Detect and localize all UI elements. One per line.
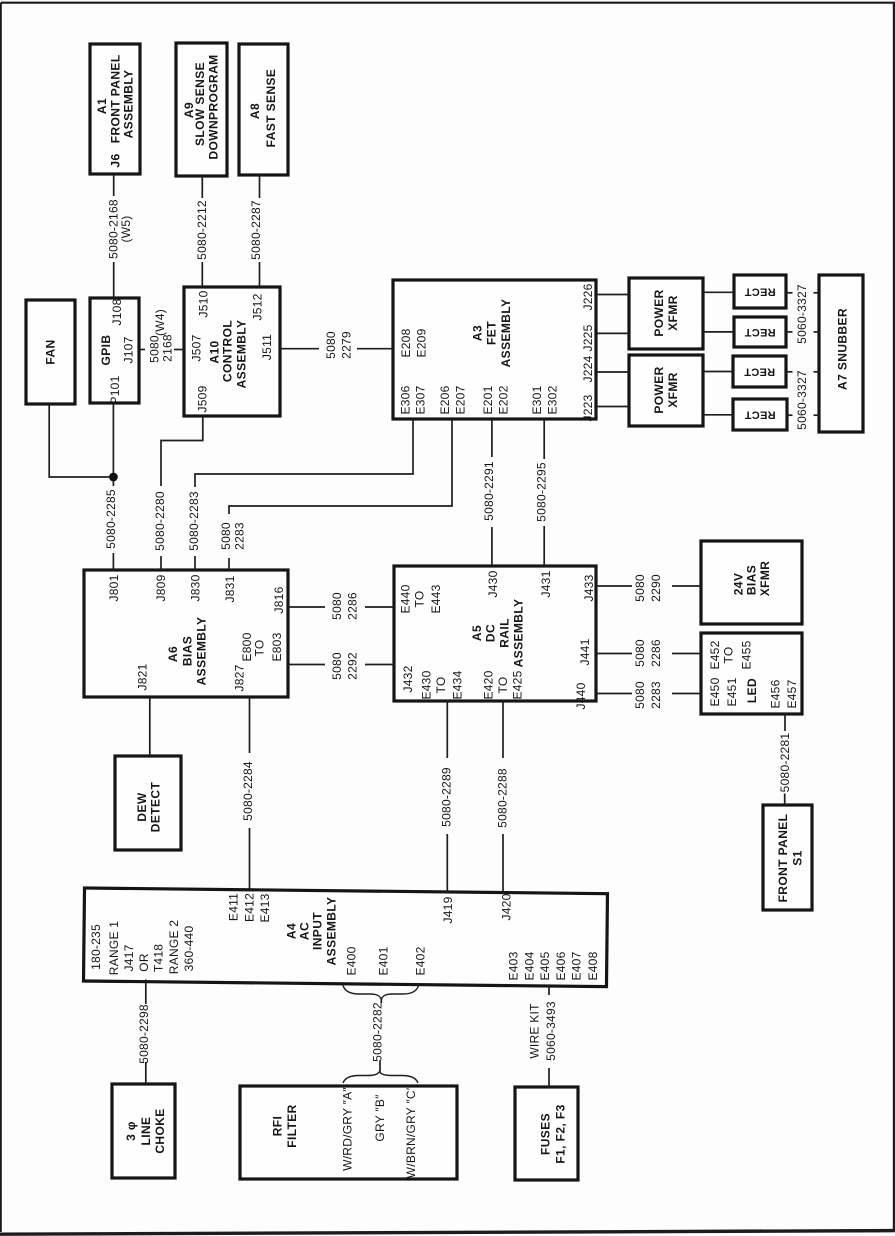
svg-text:J419: J419 bbox=[441, 896, 455, 923]
svg-text:2286: 2286 bbox=[345, 592, 359, 620]
wire GPIB-P101 to A6-J801, cable 5080-2285 bbox=[112, 403, 114, 486]
svg-text:2286: 2286 bbox=[649, 639, 663, 667]
junction dot FAN tap bbox=[109, 473, 118, 482]
svg-text:E451: E451 bbox=[725, 677, 739, 706]
svg-text:J420: J420 bbox=[499, 893, 513, 920]
svg-text:J440: J440 bbox=[574, 682, 588, 709]
svg-text:A1: A1 bbox=[95, 98, 109, 114]
svg-text:TO: TO bbox=[496, 677, 510, 694]
svg-text:J224: J224 bbox=[581, 355, 595, 382]
svg-text:F1, F2, F3: F1, F2, F3 bbox=[553, 1104, 567, 1163]
svg-text:5060-3327: 5060-3327 bbox=[795, 370, 809, 430]
svg-text:OR: OR bbox=[137, 953, 151, 972]
svg-text:SLOW SENSE: SLOW SENSE bbox=[193, 62, 207, 146]
svg-text:RANGE 2: RANGE 2 bbox=[167, 920, 181, 975]
svg-text:J830: J830 bbox=[188, 574, 202, 601]
svg-text:FILTER: FILTER bbox=[285, 1104, 299, 1148]
svg-text:2290: 2290 bbox=[649, 574, 663, 602]
svg-text:ASSEMBLY: ASSEMBLY bbox=[194, 617, 208, 686]
wire A8 to A10-J512, cable 5080-2287 bbox=[259, 175, 261, 198]
svg-text:5080-2281: 5080-2281 bbox=[778, 733, 792, 793]
svg-text:CHOKE: CHOKE bbox=[153, 1108, 167, 1153]
svg-text:J827: J827 bbox=[232, 664, 246, 691]
rectifier CR4 box bbox=[733, 399, 787, 430]
svg-text:E443: E443 bbox=[429, 584, 443, 613]
svg-text:RAIL: RAIL bbox=[497, 618, 511, 648]
svg-text:TO: TO bbox=[721, 647, 735, 664]
assembly A1 Front Panel box bbox=[90, 44, 140, 174]
svg-text:5080: 5080 bbox=[633, 681, 647, 709]
svg-text:ASSEMBLY: ASSEMBLY bbox=[324, 897, 338, 966]
24V bias transformer box bbox=[701, 541, 802, 624]
svg-text:WIRE KIT: WIRE KIT bbox=[527, 1003, 541, 1059]
svg-text:5080-2280: 5080-2280 bbox=[153, 491, 167, 551]
svg-text:24V: 24V bbox=[731, 573, 745, 596]
svg-text:5060-3327: 5060-3327 bbox=[795, 284, 809, 344]
svg-text:E456: E456 bbox=[768, 679, 782, 708]
assembly A10 Control Assembly box bbox=[184, 287, 280, 416]
svg-text:TO: TO bbox=[434, 677, 448, 694]
wire FAN to junction bbox=[49, 404, 109, 477]
FUSES F1 F2 F3 box bbox=[515, 1087, 578, 1180]
power transformer T1 box bbox=[629, 278, 703, 349]
svg-text:2283: 2283 bbox=[232, 522, 246, 550]
svg-text:E406: E406 bbox=[554, 951, 568, 980]
svg-text:J417: J417 bbox=[122, 944, 136, 971]
assembly A7 Snubber box bbox=[819, 275, 863, 432]
svg-text:J507: J507 bbox=[189, 334, 203, 361]
svg-text:(W5): (W5) bbox=[119, 216, 133, 243]
svg-text:DETECT: DETECT bbox=[148, 782, 162, 833]
brace above RFI filter bbox=[343, 1072, 418, 1084]
svg-text:DEW: DEW bbox=[135, 792, 149, 821]
svg-text:E302: E302 bbox=[545, 385, 559, 414]
wire A6-J816 to A5-E440, cable 5080 2286 bbox=[288, 606, 325, 608]
wire A6-J827 to A4-E412, cable 5080-2284 bbox=[249, 697, 251, 753]
LED board box bbox=[701, 633, 802, 714]
svg-text:E209: E209 bbox=[414, 328, 428, 357]
wire LED board to FRONT PANEL S1, cable 5080-2281 bbox=[784, 713, 786, 731]
wire A3-J226 to power xfmr T1 bbox=[596, 294, 629, 296]
svg-text:J433: J433 bbox=[582, 574, 596, 601]
svg-text:5080: 5080 bbox=[633, 574, 647, 602]
svg-text:J441: J441 bbox=[578, 638, 592, 665]
svg-text:5080: 5080 bbox=[324, 331, 338, 359]
GPIB box bbox=[90, 298, 139, 403]
wire A4-E401 to RFI filter, cable 5080-2282 bbox=[380, 998, 382, 1003]
svg-text:T418: T418 bbox=[151, 944, 165, 972]
svg-text:5060-3493: 5060-3493 bbox=[544, 1001, 558, 1061]
wire A4-E403..E408 to FUSES, wire kit 5060-3493 bbox=[548, 986, 550, 995]
svg-text:A4: A4 bbox=[284, 923, 298, 939]
svg-text:XFMR: XFMR bbox=[666, 372, 680, 408]
wire A3-J225 to power xfmr T1 bbox=[596, 332, 629, 334]
svg-text:2292: 2292 bbox=[345, 652, 359, 680]
svg-text:E401: E401 bbox=[376, 946, 390, 975]
assembly A4 AC Input Assembly box bbox=[84, 888, 608, 987]
svg-text:FET: FET bbox=[484, 321, 498, 345]
svg-text:3 φ: 3 φ bbox=[124, 1121, 138, 1141]
wire A3-E201/E202 to A5-J430, cable 5080-2291 bbox=[491, 419, 493, 457]
svg-text:E307: E307 bbox=[413, 385, 427, 414]
svg-text:E404: E404 bbox=[522, 951, 536, 980]
svg-text:J809: J809 bbox=[154, 574, 168, 601]
svg-text:A5: A5 bbox=[470, 625, 484, 641]
DEW DETECT box bbox=[115, 756, 181, 850]
svg-text:E407: E407 bbox=[569, 951, 583, 980]
svg-text:TO: TO bbox=[412, 591, 426, 608]
svg-text:RECT: RECT bbox=[744, 326, 775, 338]
svg-text:W/RD/GRY ″A″: W/RD/GRY ″A″ bbox=[340, 1087, 354, 1171]
svg-text:5080-2295: 5080-2295 bbox=[534, 462, 548, 522]
svg-text:A10: A10 bbox=[207, 340, 221, 363]
svg-text:5080-2212: 5080-2212 bbox=[195, 200, 209, 260]
svg-text:S1: S1 bbox=[790, 850, 804, 865]
wire A3-J224 to power xfmr T2 bbox=[596, 371, 629, 373]
svg-text:E306: E306 bbox=[398, 385, 412, 414]
svg-text:E420: E420 bbox=[481, 670, 495, 699]
svg-text:360-440: 360-440 bbox=[182, 926, 196, 972]
wire A6-E800/E803 to A5-J432, cable 5080 2292 bbox=[288, 664, 325, 666]
svg-text:E450: E450 bbox=[708, 677, 722, 706]
svg-text:E301: E301 bbox=[530, 385, 544, 414]
svg-text:5080: 5080 bbox=[219, 522, 233, 550]
wire A5-J433 to 24V bias xfmr, cable 5080 2290 bbox=[596, 585, 632, 587]
svg-text:J801: J801 bbox=[107, 574, 121, 601]
svg-text:DOWNPROGRAM: DOWNPROGRAM bbox=[206, 54, 220, 159]
svg-text:5080-2287: 5080-2287 bbox=[249, 200, 263, 260]
svg-text:5080: 5080 bbox=[330, 592, 344, 620]
svg-text:ASSEMBLY: ASSEMBLY bbox=[499, 299, 513, 368]
svg-text:ASSEMBLY: ASSEMBLY bbox=[234, 320, 248, 389]
wire CR1 to A7 snubber, cable 5060-3327 bbox=[786, 292, 793, 294]
svg-text:E207: E207 bbox=[453, 385, 467, 414]
svg-text:E206: E206 bbox=[438, 385, 452, 414]
svg-text:2279: 2279 bbox=[339, 331, 353, 359]
wire CR3 to A7 snubber, cable 5060-3327 bbox=[786, 371, 793, 373]
wire A3-J223 to power xfmr T2 bbox=[596, 406, 629, 408]
FRONT PANEL S1 switch box bbox=[763, 805, 812, 910]
wire CR2 to A7 snubber bbox=[786, 331, 793, 333]
svg-text:E202: E202 bbox=[496, 385, 510, 414]
wire T2 to RECT CR3 bbox=[703, 371, 733, 373]
svg-text:XFMR: XFMR bbox=[758, 561, 772, 597]
svg-text:P101: P101 bbox=[108, 375, 122, 404]
svg-text:TO: TO bbox=[252, 640, 266, 657]
svg-text:E413: E413 bbox=[258, 893, 272, 922]
wire T2 to RECT CR4 bbox=[703, 414, 733, 416]
svg-text:FRONT PANEL: FRONT PANEL bbox=[776, 814, 790, 903]
svg-text:5080-2291: 5080-2291 bbox=[482, 461, 496, 521]
svg-text:E403: E403 bbox=[506, 951, 520, 980]
svg-text:5080-2284: 5080-2284 bbox=[241, 761, 255, 821]
svg-text:ASSEMBLY: ASSEMBLY bbox=[121, 70, 135, 139]
svg-text:FAN: FAN bbox=[43, 339, 57, 364]
svg-text:E400: E400 bbox=[344, 946, 358, 975]
svg-text:A8: A8 bbox=[248, 103, 262, 119]
svg-text:J108: J108 bbox=[110, 298, 124, 325]
svg-text:J431: J431 bbox=[539, 570, 553, 597]
svg-text:J509: J509 bbox=[195, 385, 209, 412]
svg-text:J511: J511 bbox=[260, 334, 274, 360]
wire A10-J509 to A6-J809, cable 5080-2280 bbox=[161, 416, 203, 486]
svg-text:J821: J821 bbox=[135, 663, 149, 690]
svg-text:E201: E201 bbox=[481, 385, 495, 414]
svg-text:(W4): (W4) bbox=[153, 309, 167, 336]
svg-text:E803: E803 bbox=[270, 632, 284, 661]
svg-text:5080: 5080 bbox=[633, 639, 647, 667]
svg-text:E457: E457 bbox=[785, 679, 799, 708]
svg-text:XFMR: XFMR bbox=[666, 295, 680, 331]
svg-text:2168: 2168 bbox=[160, 334, 174, 362]
svg-text:W/BRN/GRY ″C″: W/BRN/GRY ″C″ bbox=[404, 1085, 418, 1178]
svg-text:BIAS: BIAS bbox=[180, 636, 194, 666]
wire A3-E301/E302 to A5-J431, cable 5080-2295 bbox=[543, 419, 545, 459]
assembly A8 Fast Sense box bbox=[239, 44, 288, 175]
svg-text:180-235: 180-235 bbox=[89, 924, 103, 970]
wire GPIB-J107 to A10-J507, cable 5080-2168 (W4) bbox=[139, 349, 145, 351]
wire A9 to A10-J510, cable 5080-2212 bbox=[201, 176, 203, 198]
rectifier CR2 box bbox=[734, 317, 786, 347]
svg-text:LED: LED bbox=[745, 678, 759, 703]
svg-text:5080-2289: 5080-2289 bbox=[439, 767, 453, 827]
wire A3-E206/E207 to A6-J831, cable 5080 2283 bbox=[229, 419, 452, 514]
svg-text:AC: AC bbox=[297, 922, 311, 940]
wire A4 to 3-phase line choke, cable 5080-2298 bbox=[145, 980, 147, 1005]
svg-text:2283: 2283 bbox=[649, 681, 663, 709]
svg-text:GRY ″B″: GRY ″B″ bbox=[373, 1094, 387, 1142]
wire A5-J440 to LED board, cable 5080 2283 bbox=[596, 693, 632, 695]
svg-text:E425: E425 bbox=[510, 670, 524, 699]
svg-text:RANGE 1: RANGE 1 bbox=[107, 921, 121, 976]
svg-text:E440: E440 bbox=[398, 584, 412, 613]
svg-text:J816: J816 bbox=[272, 586, 286, 613]
svg-text:5080-2298: 5080-2298 bbox=[137, 1004, 151, 1064]
assembly A9 Slow Sense Downprogram box bbox=[176, 43, 227, 176]
svg-text:J430: J430 bbox=[486, 570, 500, 597]
wire A6-J821 to DEW DETECT bbox=[149, 697, 151, 756]
3-phase line choke box bbox=[112, 1084, 175, 1178]
RFI FILTER box bbox=[240, 1086, 457, 1179]
svg-text:RECT: RECT bbox=[744, 408, 775, 420]
svg-text:J225: J225 bbox=[581, 324, 595, 351]
svg-text:5080-2285: 5080-2285 bbox=[104, 489, 118, 549]
svg-text:RECT: RECT bbox=[744, 285, 775, 297]
svg-text:A6: A6 bbox=[166, 646, 180, 662]
svg-text:5080: 5080 bbox=[147, 335, 161, 363]
svg-text:E430: E430 bbox=[419, 670, 433, 699]
svg-text:LINE: LINE bbox=[139, 1117, 153, 1146]
wire A10-J511 to A3, cable 5080-2279 bbox=[280, 348, 319, 350]
wire A1-J6 to GPIB-J108, cable 5080-2168 (W5) bbox=[113, 174, 115, 196]
svg-text:E455: E455 bbox=[739, 640, 753, 669]
svg-text:BIAS: BIAS bbox=[744, 565, 758, 595]
svg-text:E452: E452 bbox=[708, 640, 722, 669]
svg-text:E434: E434 bbox=[450, 670, 464, 699]
svg-text:5080-2282: 5080-2282 bbox=[370, 1002, 384, 1062]
wire A5-J441 to LED board, cable 5080 2286 bbox=[596, 653, 632, 655]
svg-text:POWER: POWER bbox=[652, 289, 666, 336]
wire A5 to A4-J420, cable 5080-2288 bbox=[502, 701, 504, 758]
svg-text:DC: DC bbox=[483, 624, 497, 642]
svg-text:5080-2283: 5080-2283 bbox=[187, 491, 201, 551]
wire CR4 to A7 snubber bbox=[787, 414, 793, 416]
power transformer T2 box bbox=[629, 355, 703, 426]
svg-text:A3: A3 bbox=[470, 325, 484, 341]
svg-text:A7 SNUBBER: A7 SNUBBER bbox=[835, 308, 849, 390]
assembly A5 DC Rail Assembly box bbox=[394, 566, 596, 701]
wire T1 to RECT CR2 bbox=[703, 331, 734, 333]
svg-text:J6 FRONT PANEL: J6 FRONT PANEL bbox=[108, 54, 122, 167]
svg-text:FUSES: FUSES bbox=[538, 1113, 552, 1155]
svg-text:POWER: POWER bbox=[652, 366, 666, 413]
svg-text:GPIB: GPIB bbox=[99, 335, 113, 366]
wire A3-E306/E307 to A6-J830, cable 5080-2283 bbox=[195, 419, 413, 487]
svg-text:FAST SENSE: FAST SENSE bbox=[264, 69, 278, 148]
svg-text:E402: E402 bbox=[413, 946, 427, 975]
svg-text:J831: J831 bbox=[223, 575, 237, 602]
svg-text:J432: J432 bbox=[401, 665, 415, 692]
wire T1 to RECT CR1 bbox=[703, 291, 734, 293]
svg-text:J107: J107 bbox=[121, 336, 135, 363]
svg-text:J510: J510 bbox=[196, 290, 210, 317]
svg-text:5080-2288: 5080-2288 bbox=[495, 768, 509, 828]
svg-text:E411: E411 bbox=[226, 893, 240, 921]
svg-text:J512: J512 bbox=[250, 293, 264, 320]
svg-text:ASSEMBLY: ASSEMBLY bbox=[511, 599, 525, 668]
svg-text:J223: J223 bbox=[581, 394, 595, 421]
FAN box bbox=[26, 300, 75, 404]
svg-text:CONTROL: CONTROL bbox=[220, 320, 234, 382]
svg-text:J226: J226 bbox=[581, 283, 595, 310]
svg-text:5080: 5080 bbox=[330, 652, 344, 680]
brace under A4 E400-E402 bbox=[343, 986, 419, 1000]
svg-text:RFI: RFI bbox=[270, 1116, 284, 1137]
svg-text:RECT: RECT bbox=[744, 365, 775, 377]
svg-text:INPUT: INPUT bbox=[310, 912, 324, 950]
rectifier CR3 box bbox=[733, 356, 786, 387]
svg-text:E408: E408 bbox=[586, 951, 600, 980]
svg-text:E405: E405 bbox=[538, 951, 552, 980]
assembly A6 Bias Assembly box bbox=[84, 570, 288, 697]
wire A5 to A4-J419, cable 5080-2289 bbox=[446, 701, 448, 758]
svg-text:E208: E208 bbox=[399, 328, 413, 357]
assembly A3 FET Assembly box bbox=[393, 280, 596, 419]
svg-text:E412: E412 bbox=[242, 893, 256, 922]
rectifier CR1 box bbox=[734, 275, 786, 308]
